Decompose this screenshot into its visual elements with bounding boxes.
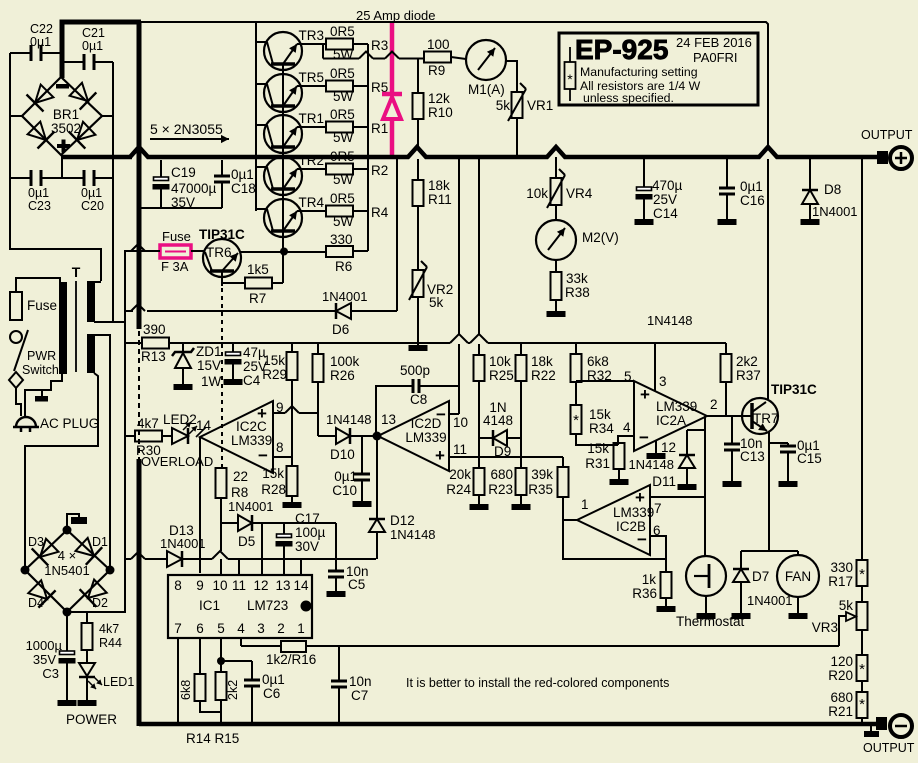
ground C5 xyxy=(327,591,346,597)
svg-text:8: 8 xyxy=(276,440,284,455)
svg-text:OVERLOAD: OVERLOAD xyxy=(141,454,213,469)
svg-text:2: 2 xyxy=(710,397,718,412)
svg-text:Switch: Switch xyxy=(22,363,59,377)
ground C10 xyxy=(353,501,372,507)
label R1 5W xyxy=(333,130,354,145)
label R21 xyxy=(828,690,853,719)
svg-text:6k8: 6k8 xyxy=(179,680,193,700)
svg-text:LED2: LED2 xyxy=(163,412,197,427)
svg-text:10k: 10k xyxy=(489,354,511,369)
label R17 xyxy=(828,560,853,589)
label R26 xyxy=(330,354,360,383)
potentiometer VR3 xyxy=(857,602,868,630)
capacitor C18 xyxy=(214,160,230,208)
svg-text:13: 13 xyxy=(381,412,396,427)
aux bridge outline xyxy=(25,530,110,612)
label pin1 xyxy=(581,497,589,512)
label 5 x 2N3055 xyxy=(150,121,223,137)
thermostat xyxy=(686,556,726,596)
label R25 xyxy=(489,354,514,383)
label D8 xyxy=(812,182,858,219)
svg-text:5k: 5k xyxy=(429,295,444,310)
svg-text:39k: 39k xyxy=(531,467,553,482)
svg-text:15k: 15k xyxy=(589,407,611,422)
svg-text:25V: 25V xyxy=(653,192,677,207)
wire left AC column xyxy=(9,53,11,178)
note red components xyxy=(406,676,669,690)
svg-text:2k2: 2k2 xyxy=(226,680,240,700)
capacitor C8 xyxy=(376,379,459,436)
label IC1 xyxy=(199,598,288,613)
capacitor C16 xyxy=(719,159,735,219)
wire BR1 right AC column xyxy=(112,62,114,322)
positive bus xyxy=(62,147,879,157)
svg-text:TR7: TR7 xyxy=(753,411,779,426)
svg-text:D2: D2 xyxy=(92,596,108,610)
svg-text:R29: R29 xyxy=(262,367,287,382)
capacitor C14 xyxy=(636,159,653,219)
label C13 xyxy=(740,436,765,464)
label IC1 pin 8 xyxy=(174,578,182,593)
wire TR4 collector stub xyxy=(256,208,267,210)
label VR2 xyxy=(427,282,453,310)
resistor R3 xyxy=(326,39,353,50)
svg-text:TR3: TR3 xyxy=(298,28,324,43)
wire IC2D pin10 xyxy=(449,413,459,415)
label R6 xyxy=(330,232,353,274)
wire D10 to node xyxy=(350,435,377,437)
resistor R4 xyxy=(326,206,353,217)
title text1 xyxy=(580,65,698,79)
svg-text:C22: C22 xyxy=(30,22,53,36)
svg-text:IC1: IC1 xyxy=(199,598,220,613)
resistor R8 xyxy=(216,468,227,498)
label D4 xyxy=(28,596,44,610)
wire fan gnd xyxy=(797,597,799,613)
arrow 2N3055 xyxy=(150,135,229,143)
label TR3 xyxy=(298,28,324,43)
svg-text:EP-925: EP-925 xyxy=(575,34,668,65)
label IC2A minus xyxy=(639,428,649,447)
svg-text:C15: C15 xyxy=(797,451,822,466)
capacitor C23 xyxy=(10,170,62,186)
wire IC2A pin5 xyxy=(576,380,634,382)
resistor R20 xyxy=(857,655,868,681)
label D12 xyxy=(390,513,436,542)
svg-text:R8: R8 xyxy=(231,485,248,500)
wire M1 to VR1 xyxy=(506,61,517,92)
label IC2C minus xyxy=(258,446,268,465)
wire R10 to bump xyxy=(417,119,419,146)
svg-text:D7: D7 xyxy=(752,569,769,584)
svg-text:0µ1: 0µ1 xyxy=(231,167,254,182)
svg-text:D8: D8 xyxy=(824,182,841,197)
wire sense column x459 xyxy=(458,157,460,414)
label BR1 xyxy=(51,107,81,136)
wire bump to R11 xyxy=(417,159,419,180)
label C6 xyxy=(262,672,285,701)
label 1N4148 floating xyxy=(647,313,693,328)
wire D6 row left xyxy=(125,304,336,311)
wire R17 to VR3 xyxy=(861,586,863,602)
wire bus to VR4 xyxy=(555,157,557,178)
svg-text:C10: C10 xyxy=(332,483,357,498)
label C10 xyxy=(332,469,357,498)
svg-text:−: − xyxy=(436,405,446,424)
svg-text:47000µ: 47000µ xyxy=(171,181,217,196)
title date xyxy=(676,35,752,50)
transistor TR5 xyxy=(264,74,302,112)
svg-text:C8: C8 xyxy=(410,392,427,407)
label R2 0R5 xyxy=(330,149,355,164)
wire LED1 to ground xyxy=(86,677,88,700)
svg-text:C23: C23 xyxy=(28,199,51,213)
svg-text:POWER: POWER xyxy=(66,712,117,727)
transistor TR1 xyxy=(264,115,302,153)
svg-text:R13: R13 xyxy=(141,349,166,364)
resistor R16 xyxy=(281,641,306,652)
ground R36 xyxy=(657,606,676,612)
diode D10 xyxy=(336,428,350,444)
svg-text:1N4148: 1N4148 xyxy=(390,527,436,542)
wire aux minus rail up xyxy=(67,251,160,612)
svg-text:5: 5 xyxy=(217,621,225,636)
label Fuse mains xyxy=(27,298,57,313)
wire D13 row xyxy=(182,551,376,559)
wire secondary upper top xyxy=(94,281,101,283)
svg-text:1N4001: 1N4001 xyxy=(747,593,793,608)
wire IC2C pin9 xyxy=(273,406,318,413)
transformer primary winding xyxy=(59,282,67,374)
svg-text:It is better to install the re: It is better to install the red-colored … xyxy=(406,676,669,690)
label R29 xyxy=(262,353,287,382)
svg-text:AC PLUG: AC PLUG xyxy=(40,416,99,431)
output plus terminal xyxy=(890,147,912,169)
potentiometer VR2 xyxy=(409,261,427,300)
svg-text:2k2: 2k2 xyxy=(736,354,758,369)
wire D13 left xyxy=(125,552,167,559)
wire BR1 plus to cap line xyxy=(61,155,63,179)
diode BR1 bottom-left xyxy=(28,122,55,149)
svg-text:M2(V): M2(V) xyxy=(582,230,619,245)
resistor R28 xyxy=(287,466,298,496)
wire base column 2N3055 xyxy=(255,22,257,211)
resistor R34 xyxy=(571,405,582,434)
label D2 xyxy=(92,596,108,610)
wire R23 gnd xyxy=(520,495,522,504)
ground C14 xyxy=(635,219,654,225)
label C17 xyxy=(295,511,326,554)
svg-text:5 × 2N3055: 5 × 2N3055 xyxy=(150,121,223,137)
label LED1 xyxy=(103,675,134,689)
diode D2 xyxy=(80,580,107,607)
ground D8 xyxy=(801,219,820,225)
aux supply line xyxy=(183,334,726,343)
svg-text:Fuse: Fuse xyxy=(162,229,191,244)
label R1 xyxy=(371,121,388,136)
wire TR5 collector stub xyxy=(256,83,267,85)
diode D6 xyxy=(336,303,351,319)
svg-text:ZD1: ZD1 xyxy=(196,344,222,359)
label pin5 xyxy=(624,369,632,384)
svg-text:0R5: 0R5 xyxy=(330,107,355,122)
wire TR3 emitter xyxy=(297,43,326,45)
svg-text:0R5: 0R5 xyxy=(330,191,355,206)
ground R23 xyxy=(512,504,531,510)
svg-text:1: 1 xyxy=(297,621,305,636)
svg-text:C5: C5 xyxy=(348,577,365,592)
svg-text:LM339: LM339 xyxy=(613,505,654,520)
svg-text:3502: 3502 xyxy=(51,121,81,136)
svg-text:10n: 10n xyxy=(349,674,372,689)
op-amp IC2B xyxy=(577,485,650,555)
svg-text:1N4148: 1N4148 xyxy=(628,457,674,472)
meter M1 xyxy=(466,40,506,80)
label D1 xyxy=(92,535,108,549)
output minus terminal xyxy=(890,715,912,737)
wire R25 bottom xyxy=(478,381,480,468)
capacitor C10 xyxy=(354,436,370,501)
op-amp IC2A xyxy=(634,381,707,451)
label BR1 plus xyxy=(57,140,70,153)
svg-text:C21: C21 xyxy=(82,26,105,40)
wire IC2B pin1 loop xyxy=(563,520,666,559)
label R5 0R5 xyxy=(330,66,355,81)
svg-text:C4: C4 xyxy=(243,373,261,388)
svg-text:5k: 5k xyxy=(839,598,854,613)
wire TR3 collector stub xyxy=(256,41,267,43)
diode BR1 top-left xyxy=(27,85,54,112)
svg-text:7: 7 xyxy=(654,501,662,516)
svg-text:*: * xyxy=(573,412,579,429)
resistor R15 xyxy=(216,672,227,700)
label IC2B xyxy=(613,505,654,534)
capacitor C13 xyxy=(724,416,740,481)
svg-text:+: + xyxy=(257,404,267,423)
label OUTPUT minus xyxy=(863,741,915,755)
label AC PLUG xyxy=(40,416,99,431)
label LED2 xyxy=(163,412,197,427)
svg-text:1k2/R16: 1k2/R16 xyxy=(266,652,316,667)
svg-text:F 3A: F 3A xyxy=(161,259,189,274)
svg-text:FAN: FAN xyxy=(785,569,811,584)
svg-text:R31: R31 xyxy=(585,456,610,471)
svg-text:1N4001: 1N4001 xyxy=(322,289,368,304)
svg-text:680: 680 xyxy=(490,467,513,482)
ground IC2A xyxy=(647,453,666,459)
svg-text:*: * xyxy=(859,696,865,713)
capacitor C6 xyxy=(244,680,260,722)
wire R9 feed xyxy=(323,44,424,59)
svg-text:LM339: LM339 xyxy=(405,430,446,445)
svg-text:4 ×: 4 × xyxy=(58,548,76,563)
label R2 xyxy=(371,163,388,178)
svg-text:−: − xyxy=(637,530,647,549)
capacitor C20 xyxy=(62,170,113,186)
wire bridge to R44 xyxy=(67,612,87,623)
switch contact diamond xyxy=(9,372,23,388)
wire D11 column xyxy=(704,416,706,556)
label D7 xyxy=(747,569,793,608)
label ZD1 xyxy=(196,344,222,389)
wire R26 bottom xyxy=(317,382,319,436)
fuse mains xyxy=(10,292,22,320)
label PWR Switch xyxy=(22,349,59,377)
label R2 5W xyxy=(333,172,354,187)
label M1 xyxy=(468,82,505,97)
diode D7 xyxy=(733,551,749,613)
label R44 xyxy=(99,622,122,650)
label pin12 xyxy=(661,440,676,455)
svg-text:TIP31C: TIP31C xyxy=(199,227,245,242)
label IC1 pin 5 bottom xyxy=(217,621,225,636)
svg-text:R34: R34 xyxy=(589,421,614,436)
transformer core xyxy=(75,281,77,372)
wire R1 right xyxy=(353,126,368,128)
title text3 xyxy=(583,91,674,105)
label C20 xyxy=(81,186,104,213)
svg-text:330: 330 xyxy=(330,232,353,247)
ground C3 xyxy=(58,700,77,706)
wire thermostat gnd xyxy=(705,596,707,613)
wire IC2A pin4 xyxy=(618,436,634,445)
node IC2D output xyxy=(373,432,382,441)
diode D1 xyxy=(76,538,103,565)
svg-text:1000µ: 1000µ xyxy=(26,638,63,653)
resistor R7 xyxy=(222,251,283,289)
wire R29 bottom xyxy=(291,380,293,466)
transistor TR6 xyxy=(203,239,241,277)
label D3 xyxy=(28,535,44,549)
svg-text:15V: 15V xyxy=(197,358,221,373)
aux bridge top connector xyxy=(67,514,87,529)
label pin7 xyxy=(654,501,662,516)
ac plug body xyxy=(13,417,39,427)
diode 25 Amp xyxy=(382,94,402,119)
wire D5 line east xyxy=(284,522,336,524)
wire IC2B pin7 xyxy=(650,496,705,498)
label TIP31C TR6 xyxy=(199,227,245,242)
wire R20 to R21 xyxy=(861,681,863,692)
label C8 xyxy=(400,363,430,407)
label IC2A xyxy=(656,399,697,428)
svg-text:R22: R22 xyxy=(531,368,556,383)
wire AC left down xyxy=(10,178,101,281)
svg-text:12k: 12k xyxy=(428,91,450,106)
svg-text:12: 12 xyxy=(253,578,268,593)
label IC1 pin 3 bottom xyxy=(257,621,265,636)
title EP-925 xyxy=(575,34,668,65)
node aux bridge right xyxy=(106,566,115,575)
svg-text:TR6: TR6 xyxy=(206,245,232,260)
svg-text:5: 5 xyxy=(624,369,632,384)
svg-text:LM339: LM339 xyxy=(656,399,697,414)
svg-text:5k: 5k xyxy=(496,98,511,113)
svg-text:1N4001: 1N4001 xyxy=(812,204,858,219)
label IC2B minus xyxy=(637,530,647,549)
label IC1 pin 1 bottom xyxy=(297,621,305,636)
sense line xyxy=(306,645,839,647)
transistor TR3 xyxy=(264,32,302,70)
capacitor C19 xyxy=(153,160,170,208)
svg-text:0µ1: 0µ1 xyxy=(30,35,51,49)
wire TR1 collector stub xyxy=(256,124,267,126)
label R3 5W xyxy=(333,47,354,62)
label R9 xyxy=(427,37,450,78)
svg-text:470µ: 470µ xyxy=(652,178,683,193)
wire R9 to M1 xyxy=(451,57,466,59)
wire base chain xyxy=(282,64,284,251)
label R3 0R5 xyxy=(330,24,355,39)
resistor R13 xyxy=(125,338,183,349)
label M2 xyxy=(582,230,619,245)
svg-text:1: 1 xyxy=(581,497,589,512)
wire fuse to TR6 xyxy=(191,250,204,252)
wire C6 link xyxy=(221,661,252,680)
plug neutral bar xyxy=(35,396,48,402)
svg-text:PA0FRI: PA0FRI xyxy=(693,50,738,65)
label TR2 xyxy=(298,153,324,168)
svg-text:R24: R24 xyxy=(446,482,471,497)
label 25 Amp diode xyxy=(356,8,436,23)
label pin2 xyxy=(710,397,718,412)
wire minus rail dashed xyxy=(138,331,140,459)
ground LED1 xyxy=(78,700,97,706)
label R28 xyxy=(261,466,286,497)
svg-text:R10: R10 xyxy=(428,105,453,120)
label IC1 pin 2 bottom xyxy=(277,621,285,636)
label C15 xyxy=(797,438,822,466)
svg-text:R7: R7 xyxy=(249,291,266,306)
ground VR2 xyxy=(409,345,428,351)
wire D10 line xyxy=(318,435,336,437)
svg-text:9: 9 xyxy=(276,400,284,415)
svg-text:R26: R26 xyxy=(330,368,355,383)
svg-text:12: 12 xyxy=(661,440,676,455)
wire VR2 to ground xyxy=(417,297,419,345)
svg-text:330: 330 xyxy=(830,560,853,575)
svg-text:−: − xyxy=(258,446,268,465)
svg-text:R20: R20 xyxy=(828,668,853,683)
svg-text:15k: 15k xyxy=(587,441,609,456)
svg-text:TR1: TR1 xyxy=(298,111,324,126)
svg-text:R17: R17 xyxy=(828,574,853,589)
dashed TR6 base link xyxy=(221,288,223,467)
diode BR1 bottom-right xyxy=(69,122,96,149)
label R31 xyxy=(585,441,610,471)
svg-text:4k7: 4k7 xyxy=(137,416,159,431)
wire R30 to LED2 xyxy=(162,435,172,437)
wire R32 to R34 xyxy=(575,382,577,405)
wire R4 right xyxy=(353,210,368,212)
svg-text:100: 100 xyxy=(427,37,450,52)
wire R37 bottom xyxy=(725,382,727,416)
label R4 0R5 xyxy=(330,191,355,206)
node pin5 C6 xyxy=(217,657,225,665)
fuse F 3A xyxy=(160,245,191,258)
label IC1 pin 9 xyxy=(196,578,204,593)
svg-text:120: 120 xyxy=(830,654,853,669)
svg-text:1W: 1W xyxy=(201,374,222,389)
resistor R22 xyxy=(516,343,527,381)
wire TR2 collector stub xyxy=(256,166,267,168)
wire TR6 emitter xyxy=(240,251,326,253)
svg-text:100k: 100k xyxy=(330,354,360,369)
svg-text:24 FEB 2016: 24 FEB 2016 xyxy=(676,35,752,50)
svg-text:3: 3 xyxy=(257,621,265,636)
svg-text:0µ1: 0µ1 xyxy=(82,39,103,53)
svg-text:TR4: TR4 xyxy=(298,195,324,210)
